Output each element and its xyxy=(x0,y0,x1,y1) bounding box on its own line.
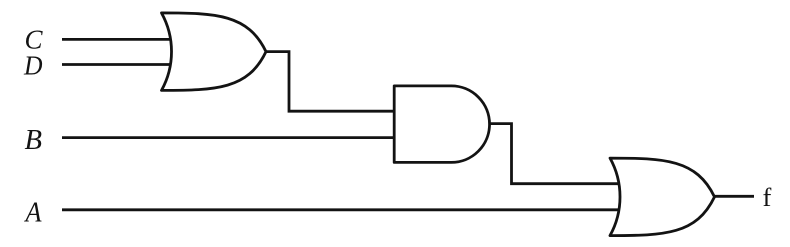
wire AND output to OR2 input (node B(C+D)) xyxy=(489,124,624,184)
wire input A xyxy=(62,208,624,211)
OR gate U1 (inputs C,D) xyxy=(162,13,267,91)
wire input C xyxy=(62,38,176,41)
OR gate U3 (inputs B(C+D), A) xyxy=(610,158,715,236)
svg-text:D: D xyxy=(23,51,43,81)
AND gate U2 (inputs C+D, B) xyxy=(394,86,489,162)
wire input B xyxy=(62,136,394,139)
wire input D xyxy=(62,63,176,66)
svg-text:A: A xyxy=(24,197,42,229)
wire OR1 output to AND input (node C+D) xyxy=(265,52,394,112)
wire OR2 output f xyxy=(714,195,754,198)
svg-text:B: B xyxy=(25,124,43,156)
svg-text:f: f xyxy=(763,182,772,212)
